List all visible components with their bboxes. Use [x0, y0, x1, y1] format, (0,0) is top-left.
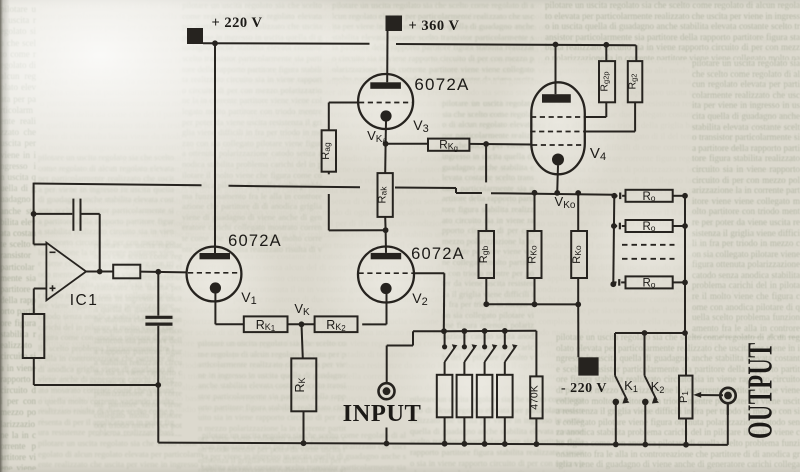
resistor divider R2 [457, 375, 473, 418]
resistor divider R1 [437, 375, 453, 418]
svg-text:Ro: Ro [642, 277, 655, 289]
socket for Ro1 [614, 195, 618, 197]
resistor Rgb [479, 231, 495, 278]
node feedback/C1 [31, 211, 37, 217]
wire +220V rail right segment [396, 44, 636, 45]
svg-text:OUTPUT: OUTPUT [742, 342, 780, 439]
wire drop to -220V [577, 304, 579, 357]
wire divider bus to 470K [535, 331, 537, 377]
wire C2 top lead [157, 272, 159, 316]
wire op-amp output [86, 271, 113, 273]
node rail/V1 plate [212, 40, 218, 46]
resistor RK1 [244, 316, 288, 332]
V2 plate [371, 253, 402, 259]
svg-text:RKo: RKo [571, 245, 583, 264]
node Rag/Rak/V2 plate [383, 227, 389, 233]
wire VKo bus [455, 188, 457, 193]
svg-text:V3: V3 [413, 117, 428, 135]
V4 cathode [552, 154, 564, 166]
resistor Ro2 [626, 220, 673, 232]
node rail/Rg2p [603, 42, 609, 48]
svg-text:K1: K1 [624, 378, 638, 394]
switch S2 [463, 331, 465, 346]
resistor divider R3 [477, 375, 493, 418]
wire divider R4 to ground [504, 417, 506, 443]
wire Rg2 drop [635, 45, 637, 61]
svg-text:VK: VK [294, 301, 310, 318]
svg-text:6072A: 6072A [411, 245, 465, 263]
svg-text:RK2: RK2 [326, 318, 346, 333]
resistor Rag [322, 130, 336, 171]
svg-text:Ro: Ro [642, 191, 655, 203]
wire VKa to Rak [384, 144, 386, 173]
switch K1 [614, 333, 616, 376]
svg-text:VKa: VKa [367, 128, 387, 145]
switch S4 [504, 331, 506, 346]
wire divider R1 to ground [444, 417, 446, 443]
node rail/V4 plate [553, 42, 559, 48]
V1 cathode [210, 282, 221, 293]
resistor RK2 [315, 316, 358, 332]
V4 grid 2 (dashed) [530, 131, 585, 133]
wire bias resistor to ground branch [33, 358, 35, 385]
-220V supply terminal [578, 357, 598, 375]
node ground/RK [301, 440, 307, 446]
wire VKa to RKg [386, 143, 428, 145]
switch S3 [484, 331, 486, 346]
resistor RK [291, 358, 316, 411]
wire P1 top lead [685, 333, 687, 376]
wire Ro3 right lead [673, 281, 685, 283]
resistor Rko (first) [534, 193, 536, 231]
svg-text:INPUT: INPUT [343, 400, 422, 427]
wire ground riser to output jack [727, 403, 729, 445]
wire V2 plate lead [385, 230, 387, 253]
+220V supply terminal [187, 28, 203, 44]
dashed continuation rows [622, 244, 675, 246]
V4 grid 1 (dashed) [531, 116, 585, 118]
socket for Ro3 [613, 281, 617, 283]
node RKg/Rgb [483, 141, 489, 147]
resistor (+ input bias, unlabelled) [23, 314, 45, 358]
wire input jack ground stub [386, 428, 388, 444]
wire + input [34, 288, 47, 290]
wire C2 bottom lead [157, 326, 159, 385]
wire +220V rail left segment [203, 42, 370, 45]
node divider bus/V2 grid [441, 328, 447, 334]
wire Ro right bus [684, 196, 686, 333]
triode V3 envelope [358, 74, 413, 129]
wire divider R2 to ground [463, 417, 465, 443]
resistor RKg [428, 139, 469, 151]
svg-text:+ 360 V: + 360 V [409, 18, 460, 34]
resistor Rko (second) [577, 193, 579, 231]
wire feedback bus segment 2 [229, 186, 361, 187]
wire divider R3 to ground [484, 417, 486, 443]
wire V4 cathode to VKo bus [556, 166, 559, 193]
svg-text:+ 220 V: + 220 V [212, 15, 263, 31]
V4 plate [542, 94, 571, 103]
node ground/divider R4 [502, 441, 508, 447]
wire Ro2 right lead [673, 225, 685, 227]
+360V supply terminal [386, 16, 403, 32]
wire V4 plate to rail [555, 45, 557, 95]
wire Rg2p drop [605, 45, 607, 61]
V4 grid 3 (dashed) [532, 144, 584, 146]
tube V4 envelope [531, 82, 585, 174]
svg-text:IC1: IC1 [70, 292, 99, 309]
resistor Ro1 [626, 190, 673, 202]
svg-text:VKo: VKo [555, 194, 576, 211]
resistor Rak [378, 173, 393, 217]
wire output jack to ground riser [727, 403, 729, 415]
P1 wiper arrow from output jack [697, 394, 723, 396]
switch K2 [644, 333, 646, 376]
input jack J1 [379, 383, 395, 399]
node VKo/V4 cathode [554, 190, 560, 196]
wire V2 grid to divider [414, 272, 445, 274]
wire V1 plate drop [214, 43, 216, 253]
node VKo/Rko2 [575, 190, 581, 196]
svg-text:Rg2p: Rg2p [599, 71, 611, 91]
wire feedback bus segment 1 [34, 184, 202, 186]
node ground/input jack [384, 441, 390, 447]
node ground/470K [534, 441, 540, 447]
V3 grid (dashed) [359, 102, 413, 104]
wire V3 grid to Rag [329, 102, 359, 104]
wire V2 cathode to RK2 [386, 294, 388, 324]
wire bias bus [486, 303, 578, 305]
V2 cathode [380, 283, 391, 294]
svg-text:V1: V1 [241, 289, 256, 307]
triode V1 envelope [187, 247, 242, 302]
node VK [299, 321, 305, 327]
node ground/divider R2 [462, 441, 468, 447]
svg-text:Rgb: Rgb [478, 246, 490, 264]
wire Ro1 right lead [673, 195, 685, 197]
resistor Rg2p [599, 61, 615, 102]
socket for Ro2 [614, 225, 618, 227]
wire Rg2p to V4 grid1 [605, 102, 607, 117]
node bias/C2 bottom [155, 382, 161, 388]
op-amp IC1 [46, 243, 86, 301]
wire input jack to divider bus [386, 346, 388, 384]
resistor 470K [530, 376, 542, 418]
svg-text:6072A: 6072A [228, 232, 282, 250]
wire V3 cathode to VKa [385, 122, 387, 144]
svg-text:V2: V2 [412, 290, 427, 308]
svg-text:470K: 470K [529, 385, 541, 410]
wire RK1-VK-RK2 [288, 323, 315, 325]
capacitor C2 [145, 316, 172, 319]
V3 plate [370, 82, 401, 89]
wire Rg2 to V4 grid2 [634, 102, 636, 131]
svg-text:RK: RK [293, 377, 307, 392]
triode V2 envelope [358, 247, 414, 303]
node ground/K2 [642, 442, 648, 448]
resistor Rg2 [628, 61, 643, 102]
wire 470K to ground [535, 418, 537, 444]
node ground/P1 [683, 442, 689, 448]
node output/V1 grid/C2 [155, 269, 161, 275]
V3 cathode [380, 110, 391, 121]
V2 grid (dashed) [359, 272, 414, 274]
svg-text:- 220 V: - 220 V [561, 381, 607, 396]
node ground/K1 [613, 442, 619, 448]
svg-text:Rak: Rak [377, 186, 389, 204]
svg-text:RKo: RKo [527, 245, 539, 264]
wire RKg to V4 grid [469, 143, 531, 146]
wire switch bus [615, 332, 686, 334]
potentiometer P1 [679, 376, 693, 419]
node VKo/Rko1 [532, 190, 538, 196]
wire +360V drop to V3 plate [386, 31, 388, 82]
wire Rgb lead (hops VKo bus) [485, 144, 487, 182]
svg-text:RKg: RKg [439, 138, 458, 153]
V1 grid (dashed) [188, 272, 241, 274]
node VKa [383, 141, 389, 147]
node C1/op-amp output [97, 269, 103, 275]
node ground/divider R3 [482, 441, 488, 447]
wire Rag bottom (hops feedback bus) [328, 172, 330, 175]
V1 plate [200, 253, 231, 259]
wire feedback bus segment 3 [395, 187, 456, 190]
resistor (output series, unlabelled) [113, 265, 140, 279]
resistor divider R4 [497, 375, 513, 418]
wire Rak to V2 plate node [384, 217, 386, 230]
wire V1 cathode to RK1 [214, 294, 216, 325]
wire feedback left drop to inverting input [33, 183, 35, 245]
wire RK to ground [303, 411, 305, 443]
node ground/divider R1 [442, 441, 448, 447]
svg-text:P1: P1 [678, 391, 690, 403]
svg-text:V4: V4 [590, 145, 606, 163]
svg-text:Ro: Ro [642, 221, 655, 233]
resistor Ro3 [626, 276, 673, 288]
wire divider bus [444, 330, 536, 332]
capacitor C1 (feedback) [34, 213, 73, 215]
svg-text:6072A: 6072A [414, 75, 469, 94]
wire Ro left bus [613, 195, 614, 284]
switch S1 [444, 331, 446, 346]
wire ground bus [158, 443, 728, 445]
svg-text:K2: K2 [651, 379, 665, 395]
svg-text:RK1: RK1 [256, 318, 276, 333]
output jack J2 [720, 388, 735, 403]
svg-text:Rag: Rag [320, 142, 332, 160]
wire VK to RK [302, 324, 303, 358]
wire P1 bottom lead [685, 419, 687, 445]
